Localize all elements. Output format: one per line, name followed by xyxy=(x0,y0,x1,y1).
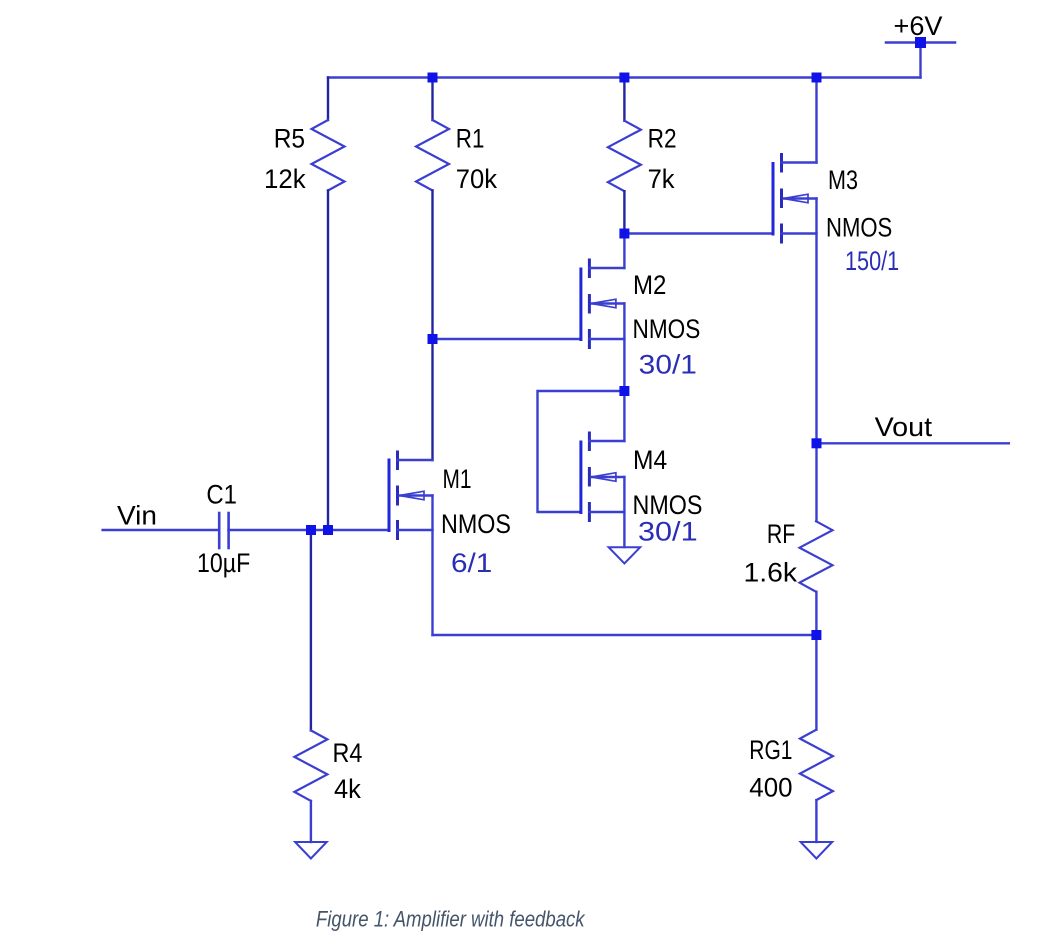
svg-text:7k: 7k xyxy=(648,164,676,194)
svg-text:NMOS: NMOS xyxy=(633,490,703,520)
svg-text:M3: M3 xyxy=(828,165,858,195)
svg-text:M1: M1 xyxy=(443,464,472,494)
svg-text:4k: 4k xyxy=(334,774,362,804)
svg-text:NMOS: NMOS xyxy=(826,213,892,243)
svg-text:M2: M2 xyxy=(633,270,666,300)
svg-text:70k: 70k xyxy=(456,164,498,194)
svg-text:400: 400 xyxy=(749,773,792,803)
svg-text:10µF: 10µF xyxy=(197,548,250,578)
svg-text:30/1: 30/1 xyxy=(638,517,698,547)
svg-text:12k: 12k xyxy=(264,164,306,194)
svg-text:150/1: 150/1 xyxy=(845,246,899,276)
svg-text:Vin: Vin xyxy=(117,501,157,531)
svg-text:+6V: +6V xyxy=(894,11,943,41)
svg-text:NMOS: NMOS xyxy=(633,314,701,344)
svg-text:R2: R2 xyxy=(648,124,677,154)
svg-text:Vout: Vout xyxy=(875,412,933,442)
svg-text:R5: R5 xyxy=(274,124,305,154)
svg-text:RF: RF xyxy=(767,519,795,549)
svg-text:R1: R1 xyxy=(456,124,485,154)
svg-text:C1: C1 xyxy=(206,480,237,510)
svg-text:30/1: 30/1 xyxy=(639,350,697,380)
svg-text:6/1: 6/1 xyxy=(451,548,492,578)
svg-text:M4: M4 xyxy=(633,445,667,475)
svg-text:RG1: RG1 xyxy=(749,735,792,765)
svg-text:NMOS: NMOS xyxy=(441,509,511,539)
svg-text:Figure 1: Amplifier with feedb: Figure 1: Amplifier with feedback xyxy=(316,906,586,931)
svg-text:1.6k: 1.6k xyxy=(744,558,798,588)
svg-text:R4: R4 xyxy=(333,738,363,768)
